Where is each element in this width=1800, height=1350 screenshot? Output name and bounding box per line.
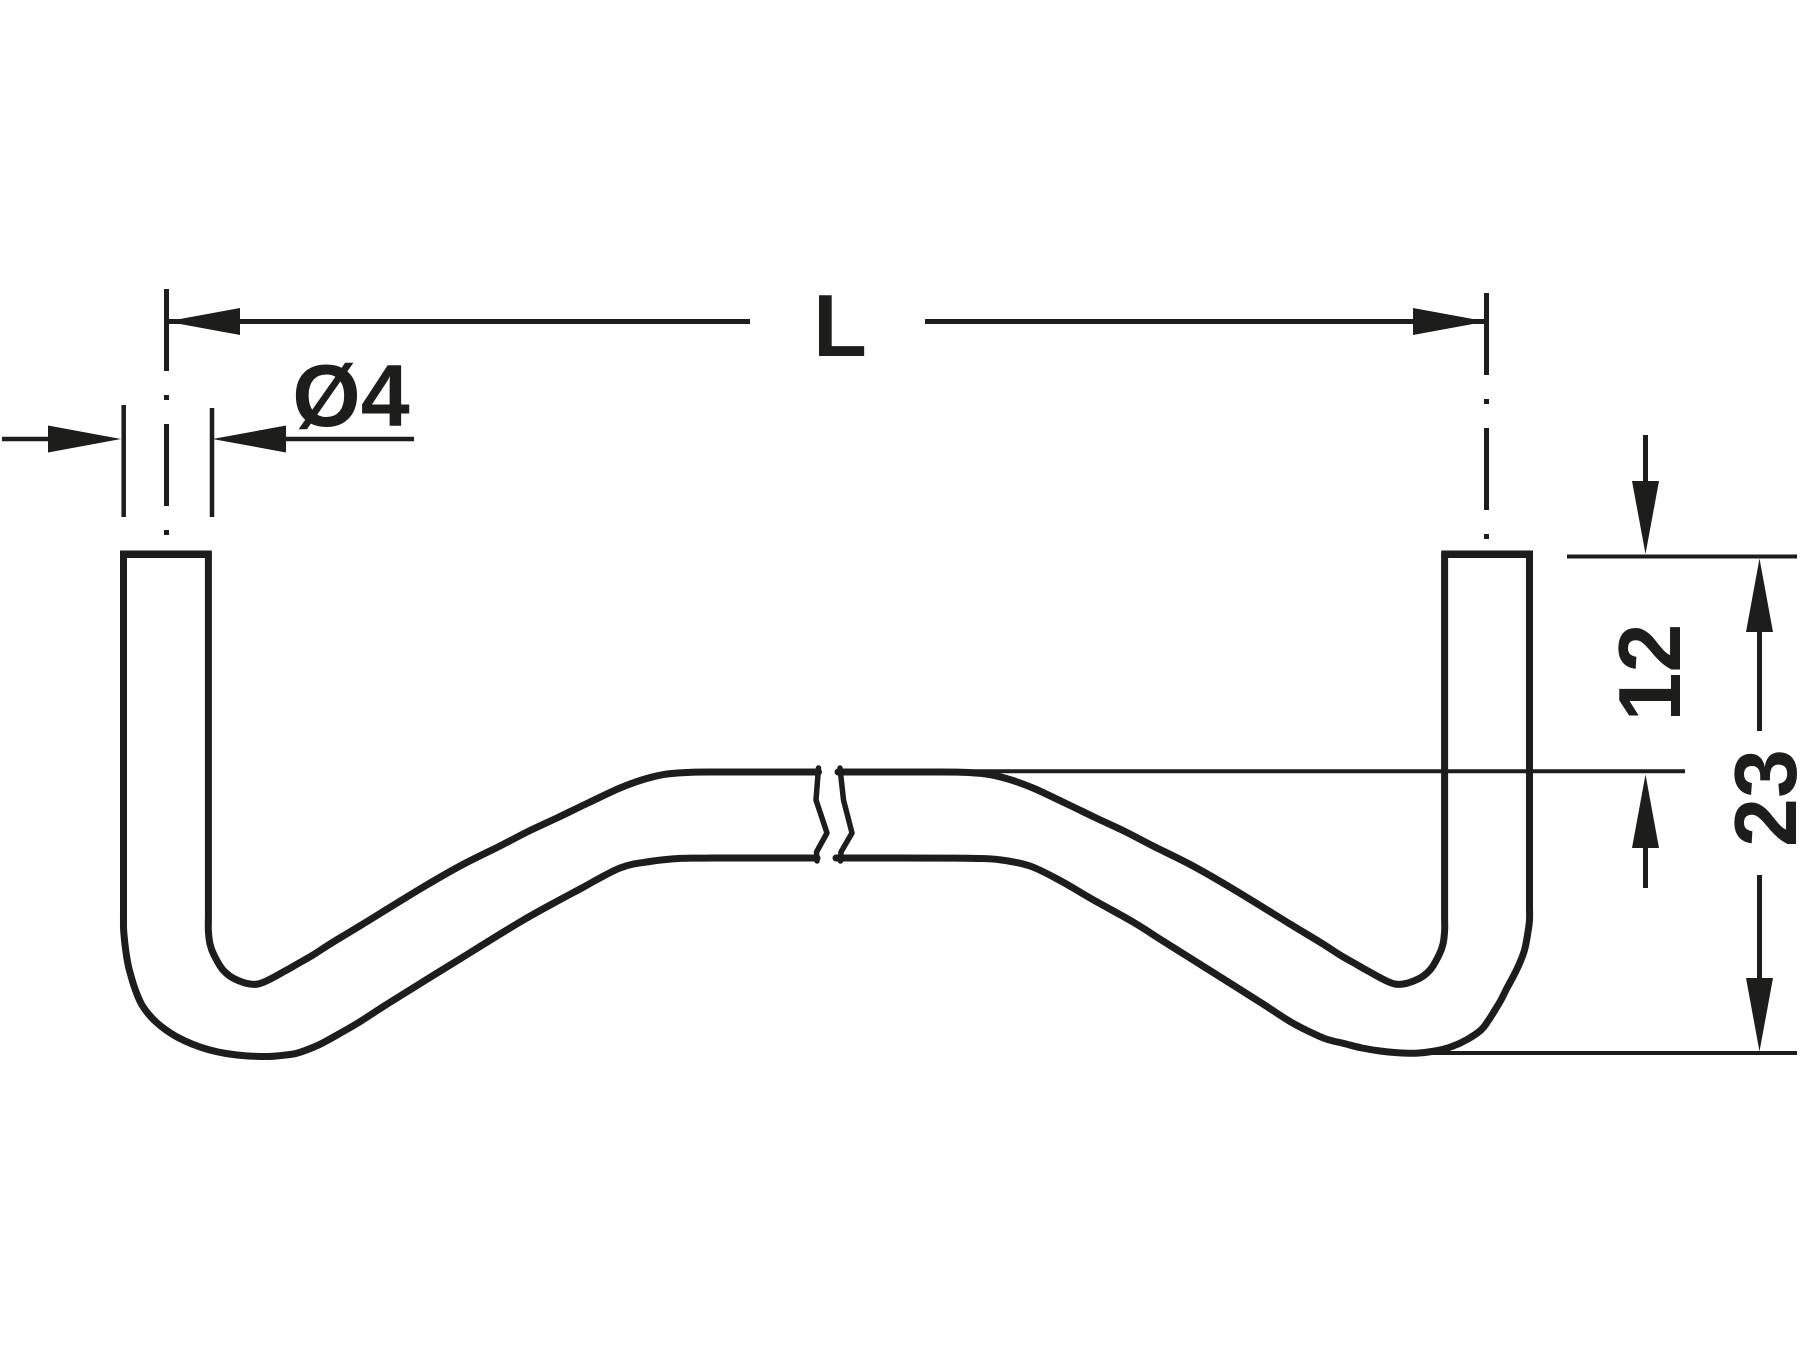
handle wire left piece white body [123,554,818,1057]
dim 12 top arrowhead (down) [1632,481,1659,554]
dim 23 bottom arrowhead (down) [1746,978,1773,1052]
handle wire right inner edge [838,554,1445,984]
break mark left squiggle [816,768,827,861]
break mark right squiggle [840,768,852,861]
dim 23 upper shaft [1757,630,1762,731]
dimension L line right segment [925,319,1487,324]
dim 12 bottom arrowhead (up) [1632,775,1659,849]
svg-text:L: L [813,276,867,375]
diameter left arrow shaft [2,437,52,442]
centerline left (dash-dot) [164,289,169,548]
handle wire left end cap [120,550,212,558]
dimension L left arrowhead [167,308,241,335]
svg-text:12: 12 [1600,624,1699,722]
svg-text:Ø4: Ø4 [292,346,409,445]
handle wire right piece white body [836,554,1530,1053]
handle wire left inner edge [208,554,818,984]
dimension L line left segment [167,319,751,324]
extension line bottom (wire bottom) [1425,1051,1797,1055]
handle wire left outer edge [123,554,817,1057]
centerline right (dash-dot) [1484,293,1489,548]
diameter right arrowhead [213,426,287,453]
dim 12 top arrow shaft [1643,435,1648,486]
diameter right arrow shaft [286,437,414,442]
extension line top right (wire top) [1567,555,1797,559]
svg-text:23: 23 [1716,749,1800,847]
handle wire right end cap [1441,550,1533,558]
diameter extension line left [121,405,126,517]
extension line middle (inner wire top) [970,769,1685,773]
dim 12 bottom arrow shaft [1643,846,1648,888]
dimension L right arrowhead [1413,308,1487,335]
diameter extension line right [210,408,215,517]
dim 23 top arrowhead (up) [1746,559,1773,633]
diameter left arrowhead [48,426,121,453]
handle wire right outer edge [836,554,1530,1053]
dim 23 lower shaft [1757,875,1762,978]
